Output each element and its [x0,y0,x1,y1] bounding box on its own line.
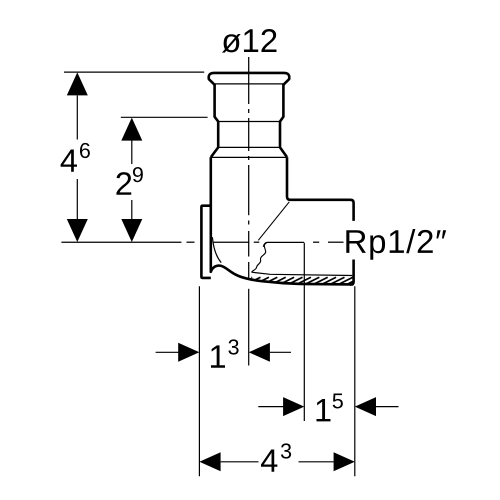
text label-rp glyph 'R' [346,230,366,253]
vertical centerline [248,57,250,278]
dimension 1-3 [156,351,179,353]
text dim43-4 glyph '4' [261,449,277,471]
inner fillet edge [212,237,221,262]
section hatching [236,277,362,285]
left flange [201,206,210,278]
text label-o12 glyph '1' [244,29,258,52]
text label-rp glyph '1' [390,230,404,253]
extension line axis [248,289,250,366]
thread wall inner edge [252,272,353,275]
socket left wall [211,84,218,158]
text label-rp glyph '/' [406,229,415,253]
text label-rp glyph 'p' [370,235,385,260]
text dim15-1 glyph '1' [316,399,330,421]
bore top edge [263,242,304,246]
press bead (top collar) [209,73,290,85]
body right wall and outlet top [287,157,354,221]
horizontal centerline [61,241,343,243]
text dim29-9 glyph '9' [133,167,143,182]
break-out wavy boundary [252,243,267,272]
text label-o12 glyph 'ø' [222,34,241,53]
dimension 4-6 arrows [67,72,88,95]
dimension 4-6 line [76,95,78,219]
text dim29-2 glyph '2' [116,172,131,195]
text dim13-1 glyph '1' [211,345,225,367]
body shoulder edge [212,156,287,158]
text glyph outlines [61,29,447,472]
text label-rp glyph '″' [436,230,446,238]
dimension 1-5 [258,406,283,408]
text label-rp glyph '2' [418,230,433,253]
extension line top (o12 level) [64,71,204,73]
text dim13-3 glyph '3' [228,339,238,354]
extension line thread end [303,243,305,421]
body left wall [210,157,213,272]
extension line outlet end [354,286,356,476]
bead bottom edge [215,83,283,85]
extension line press depth level [121,116,208,118]
text dim15-5 glyph '5' [333,394,343,409]
text dim46-4 glyph '4' [61,149,77,171]
dimension 2-9 line [131,140,133,219]
text dim43-3 glyph '3' [281,443,291,458]
socket right wall [280,84,287,158]
tube stop edge [219,146,280,148]
dimension 2-9 arrows [121,118,142,141]
extension line flange left [198,286,200,476]
press zone step edge [219,121,280,123]
cone transition edge [258,202,289,241]
text dim46-6 glyph '6' [80,143,90,158]
elbow outer curve [211,266,352,285]
text label-o12 glyph '2' [261,29,276,52]
outlet end wall lower part [350,260,354,285]
dimension 4-3 [199,452,220,471]
